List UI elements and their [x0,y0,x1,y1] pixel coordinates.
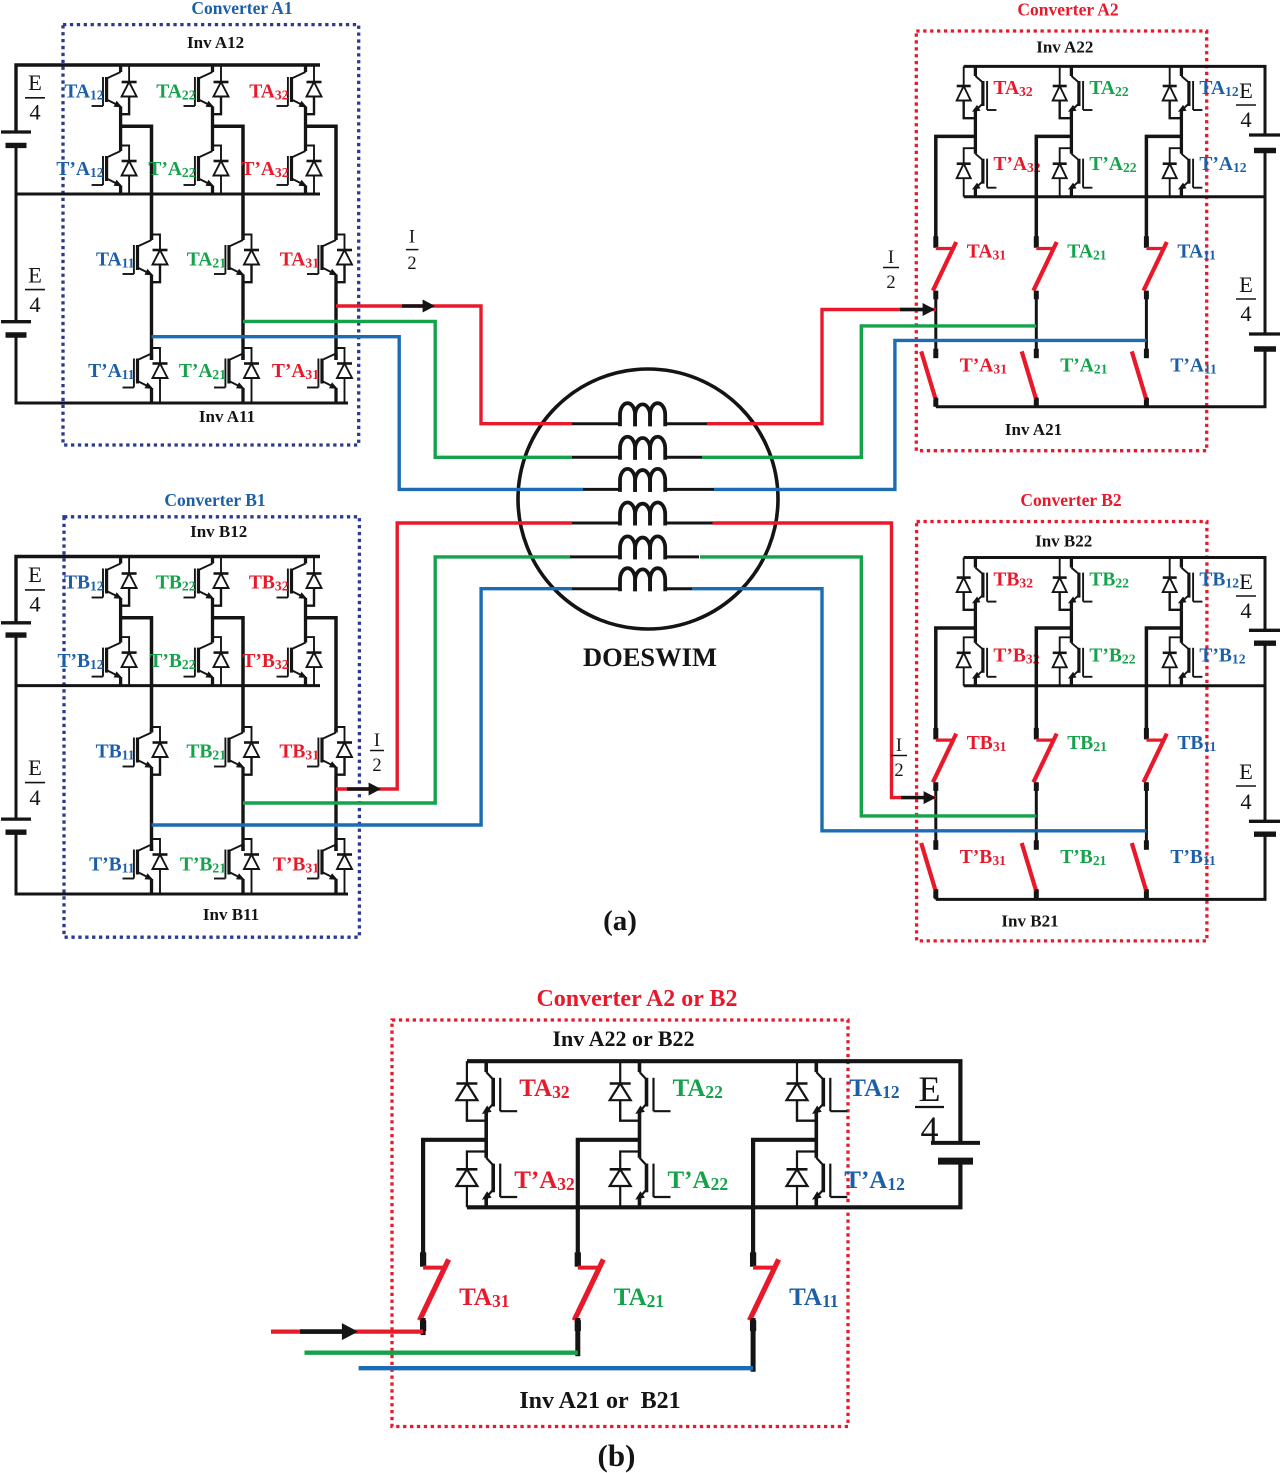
IGBT T’A31 with antiparallel diode (Inv A11 bottom row) [307,348,352,403]
IGBT TB12 with antiparallel diode (Inv B12 top row) [92,557,137,607]
switch TB11 (red, Inv B21) [1144,728,1166,791]
svg-text:Inv A22: Inv A22 [1036,38,1093,57]
inductor coil winding 2 [620,437,665,460]
label T’B32 [242,651,288,672]
label switch T’A21 [1060,356,1107,377]
wire B2 leg2 bottom link [1035,889,1038,899]
svg-text:Inv B11: Inv B11 [203,905,259,924]
svg-text:E: E [1239,569,1253,594]
switch TA11 (red, Inv A21) [1144,236,1166,299]
switch T’B31 (red, Inv B21) [922,840,936,898]
svg-text:4: 4 [29,100,40,125]
inductor coil winding 1 [620,403,665,426]
wire B2 mid bus [964,684,1265,687]
inductor coil winding 5 [620,536,665,559]
IGBT TA12 with antiparallel diode (Inv A12 top row) [92,65,137,115]
motor DOESWIM circle [518,369,778,629]
wire b top bus [467,1061,960,1143]
label Converter B2 [1020,490,1121,510]
label TA12 [64,82,103,103]
label T’A21 [179,361,226,382]
IGBT T’B21 with antiparallel diode (Inv B11 bottom row) [214,839,259,894]
switch T’A21 (red, Inv A21) [1022,349,1036,407]
label TA32 (part b) [519,1075,569,1102]
wire B1 phase jog leg2 [213,618,244,733]
label TA21 [187,250,226,271]
label TA31 [280,250,319,271]
svg-text:Inv A11: Inv A11 [199,407,255,426]
svg-text:2: 2 [372,756,381,776]
label E/4 B2 lower [1236,759,1256,814]
wire green winding2 to A2-leg2 [702,326,1036,457]
IGBT TB12 with antiparallel diode (Inv B22 top row) [1163,558,1203,611]
wire A2 mid bus [964,195,1265,198]
label T’A32 [241,159,288,180]
label TB12 (B2) [1199,570,1239,591]
wire b phase jog leg1 [423,1140,486,1266]
battery b E/4 [931,1143,980,1161]
winding 4 left lead [572,522,620,525]
IGBT TA12 with antiparallel diode (part b top row) [787,1061,848,1121]
winding 5 left lead [570,555,620,558]
svg-text:E: E [1239,78,1253,103]
wire A2 phase jog leg1 [936,136,976,247]
IGBT TA32 with antiparallel diode (Inv A12 top row) [277,65,322,115]
converter A2-or-B2 dotted box [392,1020,848,1427]
svg-text:Inv B21: Inv B21 [1001,912,1058,931]
svg-text:2: 2 [894,761,903,781]
svg-text:E: E [919,1069,941,1109]
IGBT TA32 with antiparallel diode (part b top row) [456,1061,517,1121]
label TA12 (A2) [1199,78,1238,99]
wire A1 leg3 mid link [334,283,337,360]
svg-text:4: 4 [1240,301,1251,326]
svg-text:4: 4 [1240,107,1251,132]
wire A1 bottom bus [16,335,348,403]
label switch T’A11 [1170,356,1217,377]
IGBT TB31 with antiparallel diode (Inv B11 top row) [307,727,352,776]
label Inv B12 [190,522,247,541]
svg-text:4: 4 [29,292,40,317]
label (b) [598,1438,636,1473]
wire red phase A1-leg3 to winding1 [336,306,572,424]
svg-text:Converter A1: Converter A1 [191,0,292,18]
wire red phase B1-leg3 to winding4 [336,523,572,789]
IGBT T’A32 with antiparallel diode (part b bottom row) [456,1122,517,1208]
label switch T’B31 [960,847,1006,868]
label switch T’B21 [1060,847,1106,868]
label TB22 (B2) [1089,570,1129,591]
wire blue winding3 to A2-leg3 [714,340,1146,489]
inductor coil winding 4 [620,502,665,525]
wire blue phase A1-leg1 to winding3 [152,337,584,490]
label TA22 (A2) [1089,78,1128,99]
battery A2 lower E/4 [1249,334,1280,349]
label T’A32 (A2) [993,154,1040,175]
label TB22 [156,573,196,594]
label T’B12 (B2) [1199,646,1245,667]
winding 6 right lead [665,587,692,590]
wire B2 top bus [964,558,1265,631]
IGBT T’A12 with antiparallel diode (Inv A12 bottom row) [92,115,137,194]
label switch TB21 [1067,733,1107,754]
svg-text:E: E [28,263,42,288]
wire B1 mid bus [16,684,320,687]
label switch TB31 [967,733,1007,754]
IGBT TA12 with antiparallel diode (Inv A22 top row) [1163,66,1203,119]
wire B2 leg1 mid link [934,782,937,849]
wire b leg3 lower link [751,1318,756,1372]
label TA11 [96,250,135,271]
label T’B31 [273,855,319,876]
svg-text:4: 4 [29,592,40,617]
wire A1 leg2 mid link [241,283,244,360]
label TA22 (part b) [673,1075,723,1102]
winding 3 right lead [665,488,715,491]
battery A1 lower E/4 [1,322,31,335]
svg-text:E: E [1239,272,1253,297]
svg-text:(a): (a) [603,905,637,937]
switch TA31 (red, part b) [421,1252,448,1331]
label E/4 b [915,1069,944,1149]
label switch T’A31 [960,356,1007,377]
switch T’A11 (red, Inv A21) [1132,349,1146,407]
label TB21 [186,742,226,763]
label Inv A22 or B22 [552,1026,694,1051]
wire B1 phase jog leg1 [121,618,152,733]
switch T’B11 (red, Inv B21) [1132,840,1146,898]
wire blue phase B1-leg1 to winding6 [152,589,573,825]
IGBT TA32 with antiparallel diode (Inv A22 top row) [957,66,997,119]
converter A1 dotted box [63,25,359,445]
wire A2 phase jog leg3 [1146,136,1181,247]
wire B2 leg1 bottom link [934,889,937,899]
IGBT T’A12 with antiparallel diode (Inv A22 bottom row) [1163,119,1203,197]
winding 1 left lead [572,422,620,425]
wire green phase B1-leg2 to winding5 [243,557,570,803]
label TA12 (part b) [849,1075,899,1102]
label TB12 [64,573,104,594]
label T’A12 (part b) [844,1167,905,1194]
IGBT TB21 with antiparallel diode (Inv B11 top row) [214,727,259,776]
label TA32 [249,82,288,103]
svg-text:Inv B22: Inv B22 [1035,532,1092,551]
switch TB21 (red, Inv B21) [1034,728,1056,791]
winding 5 right lead [665,555,699,558]
wire A2 top bus [964,66,1265,135]
wire A2 leg3 mid link [1145,291,1148,358]
IGBT TB32 with antiparallel diode (Inv B22 top row) [957,558,997,611]
converter B1 dotted box [64,517,359,937]
label E/4 B1 lower [25,755,45,810]
svg-text:2: 2 [407,254,416,274]
battery B1 upper E/4 [1,623,31,635]
svg-text:I: I [888,248,894,268]
wire A1 top bus [16,65,320,132]
wire red phase part b [271,1329,423,1333]
switch T’A31 (red, Inv A21) [922,349,936,407]
label Inv B22 [1035,532,1092,551]
wire B2 phase jog leg3 [1146,628,1181,739]
winding 2 left lead [572,456,620,459]
IGBT T’A22 with antiparallel diode (Inv A22 bottom row) [1053,119,1093,197]
wire blue phase part b [359,1366,753,1370]
IGBT T’B11 with antiparallel diode (Inv B11 bottom row) [123,839,168,894]
label T’A22 [148,159,195,180]
wire A2 leg1 mid link [934,291,937,358]
label Inv A21 [1005,420,1062,439]
svg-text:DOESWIM: DOESWIM [583,642,717,672]
wire B2 leg2 mid link [1035,782,1038,849]
IGBT TA22 with antiparallel diode (Inv A12 top row) [184,65,229,115]
label E/4 A2 lower [1236,272,1256,326]
arrow I/2 into A2 [900,303,935,316]
IGBT TA31 with antiparallel diode (Inv A11 top row) [307,235,352,284]
label switch TA31 [967,242,1006,263]
label Converter A1 [191,0,292,18]
label TA22 [156,82,195,103]
wire A2 leg3 bottom link [1145,398,1148,407]
IGBT TB11 with antiparallel diode (Inv B11 top row) [123,727,168,776]
svg-text:4: 4 [921,1109,939,1149]
svg-text:I: I [374,731,380,751]
winding 6 left lead [572,587,620,590]
battery B1 lower E/4 [1,819,31,832]
svg-text:I: I [409,228,415,248]
label T’A12 (A2) [1199,154,1246,175]
wire A2 leg1 bottom link [934,398,937,407]
label TB31 [279,742,319,763]
label E/4 A2 upper [1236,78,1256,132]
wire B1 leg2 mid link [241,776,244,852]
label Inv A11 [199,407,255,426]
arrow I/2 into B2 [901,791,936,804]
label Inv A22 [1036,38,1093,57]
switch TB31 (red, Inv B21) [934,728,956,791]
wire B2 phase jog leg1 [936,628,976,739]
svg-text:4: 4 [1240,789,1251,814]
svg-text:Inv A21: Inv A21 [1005,420,1062,439]
label T’A11 [88,361,135,382]
arrow I/2 on red B1 output [347,783,381,796]
wire B2 right link [1264,643,1267,821]
label I/2 at B1 output [370,731,384,776]
svg-text:Inv A12: Inv A12 [187,33,244,52]
label TB32 (B2) [993,570,1033,591]
wire B2 phase jog leg2 [1036,628,1071,739]
wire A2 bottom bus [936,405,1267,408]
svg-text:E: E [28,70,42,95]
IGBT TB32 with antiparallel diode (Inv B12 top row) [277,557,322,607]
label (a) [603,905,637,937]
svg-text:2: 2 [886,273,895,293]
wire b leg2 lower link [575,1318,580,1356]
label T’B22 (B2) [1089,646,1135,667]
winding 4 right lead [665,522,712,525]
label switch TA11 [1177,242,1216,263]
wire A1 leg1 mid link [150,283,153,360]
wire A2 right link [1264,151,1267,335]
label E/4 B1 upper [25,562,45,617]
wire b bottom right link [958,1161,962,1207]
wire B1 phase jog leg3 [306,618,337,733]
label Inv B11 [203,905,259,924]
wire b phase jog leg3 [753,1140,816,1266]
battery B2 upper E/4 [1249,630,1280,643]
wire A2 leg2 mid link [1035,291,1038,358]
svg-text:E: E [1239,759,1253,784]
wire A1 phase jog leg2 [213,126,244,240]
battery A2 upper E/4 [1249,135,1280,151]
switch TA21 (red, part b) [575,1252,602,1331]
IGBT T’B31 with antiparallel diode (Inv B11 bottom row) [307,839,352,894]
label E/4 A1 upper [25,70,45,125]
IGBT TA22 with antiparallel diode (part b top row) [610,1061,671,1121]
IGBT T’A32 with antiparallel diode (Inv A22 bottom row) [957,119,997,197]
label T’B32 (B2) [993,646,1039,667]
wire B1 top bus [16,557,320,623]
wire B2 bottom bus [936,898,1267,901]
svg-text:Converter B1: Converter B1 [164,490,265,510]
IGBT TA21 with antiparallel diode (Inv A11 top row) [214,235,259,284]
switch TA31 (red, Inv A21) [934,236,956,299]
label Converter A2 [1017,0,1118,19]
winding 3 left lead [583,488,620,491]
battery A1 upper E/4 [1,132,31,145]
label E/4 A1 lower [25,263,45,317]
switch TA21 (red, Inv A21) [1034,236,1056,299]
label switch T’B11 [1170,847,1216,868]
converter B2 dotted box [917,522,1207,941]
label switch TA21 [1067,242,1106,263]
wire A1 mid bus [16,193,320,196]
IGBT T’B32 with antiparallel diode (Inv B12 bottom row) [277,607,322,686]
IGBT TA22 with antiparallel diode (Inv A22 top row) [1053,66,1093,119]
label T’B21 [180,855,226,876]
IGBT T’A21 with antiparallel diode (Inv A11 bottom row) [214,348,259,403]
IGBT T’B22 with antiparallel diode (Inv B12 bottom row) [184,607,229,686]
wire A1 phase jog leg1 [121,126,152,240]
label I/2 at A2 input [883,248,899,293]
wire b leg1 lower link [421,1318,426,1335]
switch TA11 (red, part b) [751,1252,778,1331]
label T’A31 [272,361,319,382]
wire red winding4 to B2-leg1 [713,523,936,798]
label T’A12 [56,159,103,180]
IGBT TB22 with antiparallel diode (Inv B22 top row) [1053,558,1093,611]
label switch TA11 (part b) [789,1284,838,1311]
svg-text:4: 4 [1240,598,1251,623]
label Converter A2 or B2 [536,986,737,1012]
converter A2 dotted box [916,31,1206,451]
wire B1 leg1 mid link [150,776,153,852]
wire A1 phase jog leg3 [306,126,337,240]
wire B1 leg3 mid link [334,776,337,852]
inductor coil winding 6 [620,568,665,591]
label switch TA31 (part b) [459,1284,509,1311]
switch T’B21 (red, Inv B21) [1022,840,1036,898]
IGBT T’A11 with antiparallel diode (Inv A11 bottom row) [123,348,168,403]
arrow I/2 on red A1 output [402,300,435,313]
svg-text:Inv A21 or B21: Inv A21 or B21 [519,1388,680,1414]
IGBT TA11 with antiparallel diode (Inv A11 top row) [123,235,168,284]
svg-text:Converter A2 or B2: Converter A2 or B2 [536,986,737,1012]
wire A1 left link [15,145,18,321]
winding 1 right lead [665,422,707,425]
label T’A22 (part b) [668,1167,729,1194]
svg-text:E: E [28,562,42,587]
label TA32 (A2) [993,78,1032,99]
wire B2 bottom right link [1264,834,1267,899]
IGBT T’A32 with antiparallel diode (Inv A12 bottom row) [277,115,322,194]
IGBT T’B32 with antiparallel diode (Inv B22 bottom row) [957,611,997,686]
wire B2 leg3 bottom link [1145,889,1148,899]
svg-text:(b): (b) [598,1438,636,1473]
arrow I on red part b [300,1323,358,1340]
label Inv A12 [187,33,244,52]
svg-text:4: 4 [29,785,40,810]
label T’A32 (part b) [514,1167,575,1194]
label T’B22 [149,651,195,672]
label DOESWIM [583,642,717,672]
wire A2 phase jog leg2 [1036,136,1071,247]
label T’B11 [89,855,135,876]
label switch TA21 (part b) [614,1284,664,1311]
IGBT TB22 with antiparallel diode (Inv B12 top row) [184,557,229,607]
wire blue winding6 to B2-leg3 [692,589,1146,831]
wire green winding5 to B2-leg2 [700,557,1036,816]
wire red winding1 to A2-leg1 [707,310,936,424]
battery B2 lower E/4 [1249,821,1280,834]
wire B2 leg3 mid link [1145,782,1148,849]
label TB11 [96,742,135,763]
wire A2 leg2 bottom link [1035,398,1038,407]
label T’A22 (A2) [1089,154,1136,175]
IGBT T’A12 with antiparallel diode (part b bottom row) [787,1122,848,1208]
svg-text:Converter B2: Converter B2 [1020,490,1121,510]
label Converter B1 [164,490,265,510]
IGBT T’B12 with antiparallel diode (Inv B12 bottom row) [92,607,137,686]
label Inv B21 [1001,912,1058,931]
svg-text:E: E [28,755,42,780]
IGBT T’A22 with antiparallel diode (part b bottom row) [610,1122,671,1208]
wire A2 bottom right link [1264,349,1267,407]
inductor coil winding 3 [620,469,665,492]
IGBT T’A22 with antiparallel diode (Inv A12 bottom row) [184,115,229,194]
label E/4 B2 upper [1236,569,1256,623]
label switch TB11 [1177,733,1216,754]
label I/2 at B2 input [891,736,907,781]
wire green phase A1-leg2 to winding2 [243,321,572,457]
svg-text:Inv A22 or B22: Inv A22 or B22 [552,1026,694,1051]
wire b bottom bus [467,1205,963,1209]
wire green phase part b [305,1351,578,1355]
svg-text:I: I [896,736,902,756]
label T’B12 [57,651,103,672]
IGBT T’B22 with antiparallel diode (Inv B22 bottom row) [1053,611,1093,686]
winding 2 right lead [665,456,702,459]
wire b phase jog leg2 [578,1140,640,1266]
label Inv A21 or B21 [519,1388,680,1414]
label TB32 [249,573,289,594]
wire B1 left link [15,635,18,819]
wire B1 bottom bus [16,832,348,894]
svg-text:Converter A2: Converter A2 [1017,0,1118,19]
IGBT T’B12 with antiparallel diode (Inv B22 bottom row) [1163,611,1203,686]
label I/2 at A1 output [406,228,418,275]
svg-text:Inv B12: Inv B12 [190,522,247,541]
